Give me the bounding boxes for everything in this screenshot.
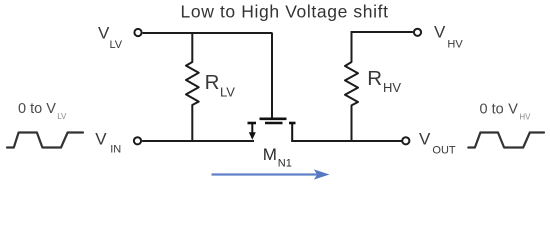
label 0 to VLV (left waveform caption)	[18, 101, 67, 121]
terminal VIN (open circle)	[134, 137, 141, 144]
wire: VHV terminal to RHV top (top-right rail with corner)	[352, 32, 413, 63]
transistor MN1 drain cap and lead	[289, 123, 296, 141]
transistor MN1 source cap and arrow	[248, 123, 257, 140]
svg-text:N1: N1	[278, 157, 292, 169]
svg-text:R: R	[367, 67, 382, 90]
right output waveform (trapezoidal pulse)	[468, 133, 544, 148]
resistor RLV	[186, 32, 199, 141]
label RHV	[367, 67, 401, 95]
terminal VOUT (open circle)	[402, 137, 409, 144]
svg-text:Low to High Voltage shift: Low to High Voltage shift	[181, 2, 389, 22]
label VHV	[434, 23, 463, 51]
svg-text:IN: IN	[110, 144, 121, 156]
svg-text:HV: HV	[519, 113, 531, 122]
svg-text:0 to: 0 to	[18, 101, 42, 117]
svg-text:LV: LV	[110, 39, 123, 51]
svg-text:HV: HV	[447, 38, 463, 50]
svg-text:V: V	[98, 23, 110, 42]
wire: gate drop from top rail to transistor gate	[271, 33, 273, 118]
label VOUT	[419, 130, 456, 157]
svg-text:LV: LV	[220, 84, 235, 99]
svg-text:R: R	[205, 71, 220, 94]
svg-text:M: M	[263, 145, 277, 164]
blue signal-flow arrow	[212, 169, 330, 179]
label VLV	[98, 23, 123, 51]
svg-text:V: V	[419, 130, 431, 149]
left input waveform (trapezoidal pulse)	[7, 133, 83, 148]
label 0 to VHV (right waveform caption)	[480, 102, 532, 122]
svg-text:LV: LV	[57, 112, 67, 121]
svg-text:V: V	[508, 102, 518, 118]
svg-text:HV: HV	[383, 80, 401, 95]
wire: transistor drain to VOUT terminal (bottom-right rail)	[291, 140, 401, 142]
svg-text:0 to: 0 to	[480, 102, 504, 118]
transistor MN1 channel bar	[265, 122, 283, 125]
label MN1	[263, 145, 292, 169]
wire: VLV terminal to gate column (top-left rail)	[143, 32, 273, 34]
transistor MN1 gate bar	[260, 118, 287, 121]
label VIN	[95, 130, 121, 156]
resistor RHV	[345, 62, 358, 141]
wire: VIN terminal to transistor source (bottom-left rail)	[142, 140, 254, 142]
svg-text:OUT: OUT	[432, 145, 456, 157]
svg-text:V: V	[46, 101, 56, 117]
terminal VLV (open circle)	[134, 29, 141, 36]
terminal VHV (open circle)	[414, 29, 421, 36]
label RLV	[205, 71, 236, 99]
svg-text:V: V	[95, 130, 107, 149]
svg-text:V: V	[434, 23, 446, 42]
